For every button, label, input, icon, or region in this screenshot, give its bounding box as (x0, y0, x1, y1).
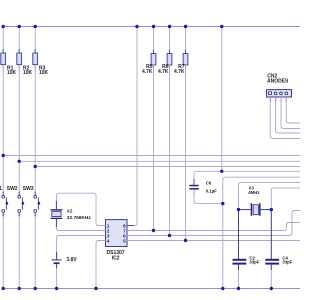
resistor R7 (174, 27, 188, 241)
svg-text:SW2: SW2 (7, 186, 18, 192)
svg-text:SW3: SW3 (23, 186, 34, 192)
svg-text:5: 5 (123, 238, 126, 244)
crystal X2 32.768KHz (51, 193, 106, 230)
wire switch bus 2 (19, 160, 300, 162)
junction dot VCC line (220, 170, 223, 173)
junction dots switch buses (2, 154, 37, 168)
wire ground from right edge down to ground bus (223, 177, 300, 288)
svg-text:4MHz: 4MHz (248, 190, 259, 195)
capacitor C6 (189, 171, 223, 203)
wire switch bus 3 (35, 166, 300, 168)
wire VCC horizontal to right edge (197, 170, 301, 172)
wire CN2 pin 2 (276, 97, 300, 133)
DS1307 IC2 pin legs (99, 226, 135, 241)
svg-text:32.768KHz: 32.768KHz (67, 215, 92, 221)
resistor R3 (33, 27, 49, 196)
wire CN2 pin 4 (286, 97, 300, 123)
svg-text:33pF: 33pF (249, 259, 259, 264)
svg-text:4: 4 (107, 238, 110, 244)
wire VCC drop to MCU supply line (221, 27, 223, 172)
connector CN2 pin legs (270, 97, 286, 102)
wire DS1307 pin 7 to right edge (127, 223, 300, 231)
svg-text:3.8V: 3.8V (66, 257, 77, 263)
wire OSC1 from right edge to X3 left (239, 182, 301, 209)
wire switch bus 1 (3, 155, 300, 157)
resistor R5 (142, 27, 156, 231)
svg-text:IC2: IC2 (112, 255, 120, 261)
junction dots X3 (237, 208, 273, 211)
junction dots top rail (2, 25, 224, 28)
svg-text:SW1: SW1 (0, 186, 2, 192)
switch SW3 (23, 186, 40, 289)
svg-text:X2: X2 (67, 208, 73, 213)
capacitor C2 (233, 210, 260, 289)
wire DS1307 pin 6 to right edge (127, 211, 300, 236)
wire OSC2 from right edge to X3 right (271, 188, 300, 210)
junction dot C6 bottom (221, 202, 224, 205)
wire CN2 pin 3 (281, 97, 300, 129)
crystal X3 4MHz (239, 185, 272, 215)
capacitor C4 (265, 210, 293, 289)
wire VCC top rail (3, 26, 300, 28)
resistor R1 (1, 27, 17, 196)
svg-text:ANODES: ANODES (267, 79, 289, 85)
wire DS1307 pin 4 to ground (96, 241, 106, 289)
svg-text:C6: C6 (206, 181, 212, 186)
wire CN2 pin 1 (270, 97, 300, 139)
svg-text:33pF: 33pF (282, 259, 292, 264)
resistor R2 (17, 27, 33, 196)
wire VCC to DS1307 pin 8 (127, 27, 137, 226)
junction dots pull-up resistors on pins 7 6 5 (152, 229, 187, 242)
wire ground bus bottom (3, 288, 300, 290)
connector CN2 ANODES (267, 74, 292, 98)
DS1307 IC2 (106, 220, 128, 262)
svg-text:0.1µF: 0.1µF (206, 188, 217, 193)
switch SW2 (7, 186, 24, 289)
switch SW1 (0, 186, 8, 289)
battery B1 3.8V (52, 236, 106, 289)
junction dots ground bus (2, 287, 273, 290)
wire DS1307 pin 5 to right edge (127, 240, 300, 242)
resistor R6 (158, 27, 172, 236)
